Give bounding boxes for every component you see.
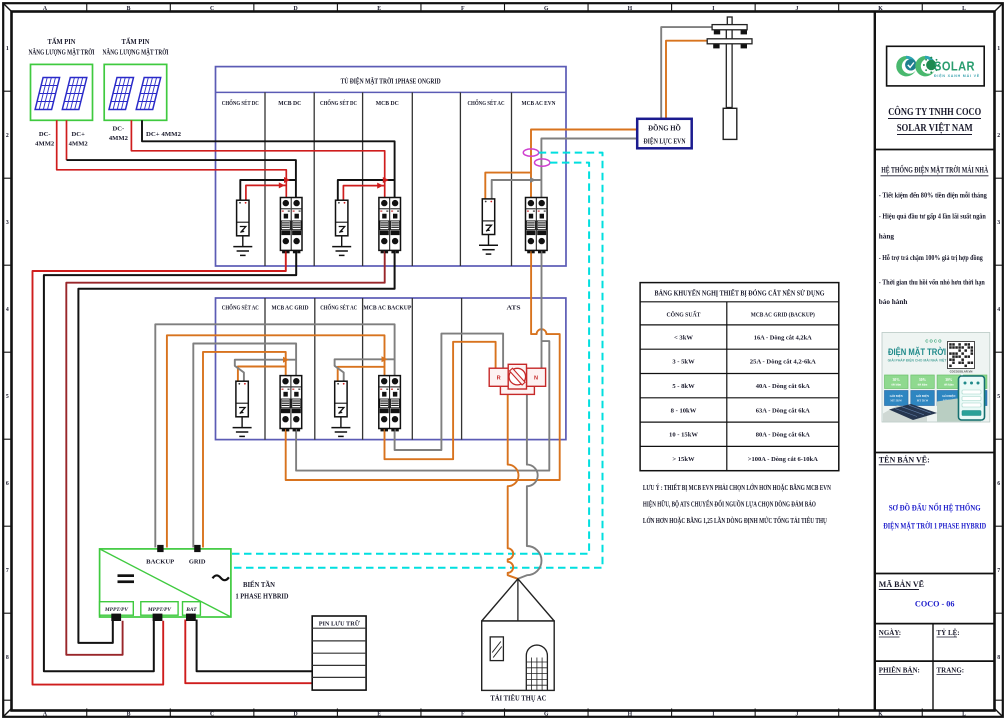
svg-text:DC-: DC- [39, 131, 51, 138]
SPD DC 1 branch wires [240, 180, 296, 200]
svg-text:10 - 15kW: 10 - 15kW [669, 432, 698, 439]
svg-text:25A - Dòng cắt 4,2-6kA: 25A - Dòng cắt 4,2-6kA [750, 359, 816, 366]
svg-text:COCOSOLAR.VN: COCOSOLAR.VN [950, 370, 973, 374]
red wire MCB DC1 -> MPPT2 [33, 251, 286, 685]
svg-text:CÔNG SUẤT: CÔNG SUẤT [667, 310, 702, 318]
svg-text:7: 7 [997, 568, 1000, 574]
ruler ticks and numbers (left/right) [3, 90, 11, 92]
svg-text:2: 2 [997, 133, 1000, 139]
junction arrow EVN [530, 177, 536, 183]
svg-text:LƯU Ý : THIẾT BỊ MCB EVN PHẢI: LƯU Ý : THIẾT BỊ MCB EVN PHẢI CHỌN LỚN H… [643, 484, 831, 492]
svg-text:> 15kW: > 15kW [672, 456, 695, 463]
house door (arched, grid) [526, 645, 547, 690]
svg-text:DC+: DC+ [72, 131, 86, 138]
svg-text:1: 1 [6, 46, 9, 52]
svg-text:CHỐNG SÉT AC: CHỐNG SÉT AC [222, 303, 259, 311]
main cabinet box row 1: TU DIEN MAT TROI 1PHASE ONGRID [216, 67, 567, 266]
svg-text:CHỐNG SÉT DC: CHỐNG SÉT DC [222, 99, 259, 107]
house roof [482, 579, 555, 621]
svg-text:D: D [294, 711, 298, 717]
corner diagonals [4, 4, 11, 11]
ATS lower box [500, 386, 534, 394]
recommendation table [640, 283, 839, 471]
ground SPD EVN [479, 235, 498, 255]
svg-text:PIN LƯU TRỮ: PIN LƯU TRỮ [319, 619, 361, 627]
svg-text:GÓI ĐIỆN: GÓI ĐIỆN [890, 395, 903, 398]
svg-text:bảo hành: bảo hành [879, 298, 908, 306]
svg-text:GIẢI PHÁP ĐIỆN CHO MÁI NHÀ VIỆ: GIẢI PHÁP ĐIỆN CHO MÁI NHÀ VIỆT [888, 358, 948, 363]
svg-text:SƠ ĐỒ ĐẤU NỐI HỆ THỐNG: SƠ ĐỒ ĐẤU NỐI HỆ THỐNG [889, 502, 982, 512]
svg-text:80A - Dòng cắt 6kA: 80A - Dòng cắt 6kA [756, 432, 810, 439]
MCB AC BACKUP [379, 376, 401, 432]
svg-text:1: 1 [997, 46, 1000, 52]
svg-text:E: E [377, 6, 381, 12]
ten ban ve section [875, 452, 995, 454]
svg-text:MT 5KW: MT 5KW [917, 400, 929, 403]
svg-text:TỶ LỆ:: TỶ LỆ: [937, 629, 960, 637]
battery PIN LUU TRU [312, 616, 366, 690]
svg-text:MPPT/PV: MPPT/PV [104, 607, 128, 613]
ma ban ve section [875, 573, 995, 575]
ruler ticks and letters (top/bottom) [86, 3, 88, 11]
ngay / ty le row [875, 623, 995, 625]
svg-text:N: N [534, 376, 538, 382]
svg-text:8: 8 [6, 655, 9, 661]
svg-text:G: G [544, 711, 549, 717]
orange GRID wire inverter->MCB AC GRID left pole [203, 352, 286, 548]
pole insulators [713, 30, 747, 48]
orange ATS output to house [508, 394, 519, 578]
svg-text:E: E [377, 711, 381, 717]
solar panel 2 (TAM PIN) [104, 64, 167, 120]
inverter terminal GRID [194, 545, 200, 552]
svg-text:ATS: ATS [507, 304, 521, 311]
svg-text:B: B [127, 6, 131, 12]
svg-text:NĂNG LƯỢNG MẶT TRỜI: NĂNG LƯỢNG MẶT TRỜI [103, 49, 169, 57]
svg-text:MÃ BẢN VẼ: MÃ BẢN VẼ [879, 579, 924, 589]
solar panel 1 (TAM PIN) [31, 64, 93, 120]
svg-text:TỦ ĐIỆN MẶT TRỜI 1PHASE ONGRID: TỦ ĐIỆN MẶT TRỜI 1PHASE ONGRID [341, 75, 441, 85]
inverter BIEN TAN box [100, 549, 231, 617]
svg-text:GÓI ĐIỆN: GÓI ĐIỆN [942, 395, 955, 398]
cyan dashed CT line B [231, 163, 589, 554]
SPD chong set DC 1 [237, 200, 249, 236]
wire panel1 DC+ (black) to MCB DC 1 right pole [67, 160, 296, 197]
svg-text:D: D [294, 6, 298, 12]
ground SPD DC2 [332, 236, 351, 256]
pole bottom cylinder [723, 108, 737, 139]
SPD chong set AC grid [236, 381, 248, 417]
gray BACKUP wire inverter->MCB AC BACKUP right pole [155, 324, 394, 547]
utility pole [707, 17, 752, 108]
svg-text:4MM2: 4MM2 [35, 140, 55, 147]
svg-text:ĐIỆN MẶT TRỜI: ĐIỆN MẶT TRỜI [888, 346, 946, 357]
svg-text:4: 4 [997, 307, 1000, 313]
svg-text:GRID: GRID [189, 559, 206, 566]
svg-text:hàng: hàng [879, 233, 895, 241]
svg-text:TRANG:: TRANG: [937, 666, 965, 674]
svg-text:HỆ THỐNG ĐIỆN MẶT TRỜI MÁI NHÀ: HỆ THỐNG ĐIỆN MẶT TRỜI MÁI NHÀ [881, 165, 988, 175]
DONG HO DIEN LUC EVN meter box [637, 119, 692, 149]
svg-text:PHIÊN BẢN:: PHIÊN BẢN: [879, 666, 920, 674]
coco solar logo [896, 56, 916, 77]
svg-text:G: G [544, 6, 549, 12]
inverter diagonal [100, 549, 231, 617]
SPD AC EVN branch wires [485, 173, 531, 199]
SPD AC backup branch wires (crossed) [338, 367, 385, 381]
svg-text:NĂNG LƯỢNG MẶT TRỜI: NĂNG LƯỢNG MẶT TRỜI [29, 49, 95, 57]
SPD chong set AC EVN [482, 199, 494, 235]
svg-text:7: 7 [6, 568, 9, 574]
roof center post [517, 579, 519, 621]
svg-text:CHỐNG SÉT AC: CHỐNG SÉT AC [320, 303, 357, 311]
svg-text:H: H [628, 711, 633, 717]
ATS R box [489, 368, 508, 386]
svg-text:B: B [127, 711, 131, 717]
svg-text:3 - 5kW: 3 - 5kW [672, 359, 695, 366]
svg-text:K: K [878, 711, 883, 717]
black wire MCB DC1 -> MPPT2 [44, 251, 296, 672]
svg-text:ĐIỆN XANH MÁI VỀ: ĐIỆN XANH MÁI VỀ [934, 73, 980, 78]
svg-text:8 - 10kW: 8 - 10kW [671, 407, 697, 414]
svg-text:- Hiệu quả đầu tư gấp 4 lần lã: - Hiệu quả đầu tư gấp 4 lần lãi suất ngâ… [879, 212, 986, 221]
SPD DC 2 branch wires [338, 180, 395, 200]
svg-text:BACKUP: BACKUP [146, 559, 174, 566]
AC symbol ~ [213, 575, 229, 580]
MCB AC GRID [280, 376, 302, 432]
svg-text:HIỆN HỮU, BỘ ATS CHUYỂN ĐỔI NG: HIỆN HỮU, BỘ ATS CHUYỂN ĐỔI NGUỒN LỰA CH… [643, 500, 816, 508]
svg-text:5: 5 [6, 394, 9, 400]
DC symbol = [118, 574, 135, 577]
orange U-turn MCB backup -> ATS R [385, 342, 496, 459]
ATS center box [508, 364, 526, 389]
svg-text:COCO: COCO [925, 339, 942, 344]
svg-text:C: C [210, 6, 214, 12]
svg-text:3: 3 [6, 220, 9, 226]
svg-text:5: 5 [997, 394, 1000, 400]
CT coil magenta ellipse 2 [535, 159, 550, 166]
svg-text:ĐIỆN LỰC EVN: ĐIỆN LỰC EVN [644, 138, 686, 146]
svg-text:K: K [878, 6, 883, 12]
svg-text:F: F [461, 6, 465, 12]
svg-text:DC-: DC- [113, 126, 125, 133]
MCB DC 2 [379, 198, 401, 254]
orange link MCB EVN -> ATS column -> MCB AC GRID left pole [286, 249, 560, 481]
logo box [887, 46, 985, 86]
svg-text:TẤM PIN: TẤM PIN [122, 38, 150, 46]
svg-text:8: 8 [997, 655, 1000, 661]
svg-text:3: 3 [997, 220, 1000, 226]
MPPT/PV box 2 [141, 602, 178, 616]
gray branch jog -> down -> MCB AC GRID right pole [296, 341, 549, 471]
svg-text:MCB AC GRID (BACKUP): MCB AC GRID (BACKUP) [751, 311, 815, 318]
wire meter to MCB AC EVN left pole (orange) [531, 130, 637, 198]
SPD chong set AC backup [335, 381, 347, 417]
svg-text:MT 5KW: MT 5KW [890, 400, 902, 403]
svg-text:MCB AC EVN: MCB AC EVN [522, 100, 556, 107]
svg-text:4: 4 [6, 307, 9, 313]
svg-text:R: R [497, 376, 501, 382]
svg-text:MPPT/PV: MPPT/PV [147, 607, 171, 613]
svg-text:CHỐNG SÉT AC: CHỐNG SÉT AC [468, 99, 505, 107]
svg-text:30%: 30% [945, 378, 953, 382]
svg-text:NGÀY:: NGÀY: [879, 629, 901, 637]
svg-text:CÔNG TY TNHH COCO: CÔNG TY TNHH COCO [888, 105, 981, 118]
orange BACKUP wire inverter->MCB AC BACKUP left pole [167, 335, 385, 547]
svg-text:6: 6 [997, 481, 1000, 487]
cabinet box row 2 [216, 298, 566, 440]
BAT box [183, 602, 201, 616]
svg-text:BẢNG KHUYẾN NGHỊ THIẾT BỊ ĐÓNG: BẢNG KHUYẾN NGHỊ THIẾT BỊ ĐÓNG CẮT NÊN S… [655, 289, 826, 297]
svg-text:MCB AC GRID: MCB AC GRID [272, 304, 309, 311]
inverter terminal BACKUP [157, 545, 163, 552]
svg-text:30%: 30% [919, 378, 927, 382]
svg-text:tiết kiệm: tiết kiệm [918, 384, 929, 387]
cyan dashed CT line A [231, 153, 603, 568]
utility pole wires (gray top, orange bottom) [661, 27, 712, 119]
gray link MCB EVN -> ATS N box [541, 249, 543, 369]
CT coil magenta ellipse 1 [523, 149, 538, 156]
svg-text:SOLAR: SOLAR [934, 59, 975, 74]
svg-text:4MM2: 4MM2 [109, 135, 129, 142]
svg-text:- Hỗ trợ trả chậm 100% giá trị: - Hỗ trợ trả chậm 100% giá trị hợp đồng [879, 253, 983, 262]
ATS rotary knob [509, 368, 526, 385]
title block left edge [874, 12, 876, 711]
svg-text:L: L [962, 6, 966, 12]
MPPT/PV box 1 [100, 602, 134, 616]
svg-text:GÓI ĐIỆN: GÓI ĐIỆN [916, 395, 929, 398]
ground SPD AC backup [331, 417, 350, 437]
svg-text:40A - Dòng cắt 6kA: 40A - Dòng cắt 6kA [756, 383, 810, 390]
svg-text:BIẾN TẦN: BIẾN TẦN [243, 581, 275, 589]
ground SPD AC grid [233, 417, 252, 437]
svg-text:ĐIỆN MẶT TRỜI 1 PHASE HYBRID: ĐIỆN MẶT TRỜI 1 PHASE HYBRID [883, 520, 986, 530]
MCB DC 1 [280, 198, 302, 254]
svg-text:6: 6 [6, 481, 9, 487]
svg-text:2: 2 [6, 133, 9, 139]
svg-text:BAT: BAT [185, 607, 197, 613]
red wire MCB DC2 -> MPPT1 [66, 251, 384, 655]
section divider [875, 149, 995, 151]
svg-text:MCB DC: MCB DC [376, 100, 399, 107]
svg-text:5 - 8kW: 5 - 8kW [672, 383, 695, 390]
phien ban / trang row [875, 660, 995, 662]
svg-text:H: H [628, 6, 633, 12]
wire panel1 DC- (red) to MCB DC 1 left pole [57, 120, 287, 197]
svg-text:DC+ 4MM2: DC+ 4MM2 [146, 131, 182, 138]
wire panel2 DC+ (black) to MCB DC 2 right pole [142, 120, 395, 197]
svg-text:TẢI TIÊU THỤ AC: TẢI TIÊU THỤ AC [490, 695, 546, 703]
svg-text:F: F [461, 711, 465, 717]
svg-text:- Tiết kiệm đến 80% tiền điện: - Tiết kiệm đến 80% tiền điện mỗi tháng [879, 191, 987, 200]
svg-text:1 PHASE HYBRID: 1 PHASE HYBRID [236, 593, 289, 601]
svg-text:L: L [962, 711, 966, 717]
wire meter to MCB AC EVN right pole (gray) [541, 139, 637, 198]
svg-text:MCB DC: MCB DC [278, 100, 301, 107]
svg-text:ĐỒNG HỒ: ĐỒNG HỒ [648, 125, 681, 133]
junction arrows group 1 [284, 177, 290, 183]
svg-text:LỚN HƠN HOẶC BẰNG 1,25 LẦN DÒN: LỚN HƠN HOẶC BẰNG 1,25 LẦN DÒNG ĐỊNH MỨC… [643, 517, 827, 525]
row 1 column dividers [264, 92, 266, 266]
svg-text:C: C [210, 711, 214, 717]
red battery wire [185, 620, 312, 684]
black battery wire [197, 620, 313, 672]
black wire MCB DC2 -> MPPT1 [78, 251, 394, 643]
svg-text:30%: 30% [893, 378, 901, 382]
SPD AC grid branch wires (crossed) [238, 367, 286, 382]
svg-text:SOLAR VIỆT NAM: SOLAR VIỆT NAM [897, 121, 973, 134]
gray U-turn MCB backup -> ATS R [395, 334, 504, 450]
ground SPD DC1 [233, 236, 252, 256]
MCB AC EVN [526, 198, 548, 254]
svg-text:TẤM PIN: TẤM PIN [48, 38, 76, 46]
svg-text:TÊN BẢN VẼ:: TÊN BẢN VẼ: [879, 454, 930, 464]
junction arrows group 2 [383, 177, 389, 183]
svg-text:tiết kiệm: tiết kiệm [891, 384, 902, 387]
svg-text:< 3kW: < 3kW [674, 334, 693, 341]
svg-text:16A - Dòng cắt 4,2kA: 16A - Dòng cắt 4,2kA [754, 334, 812, 341]
svg-text:J: J [795, 711, 798, 717]
svg-text:>100A - Dòng cắt 6-10kA: >100A - Dòng cắt 6-10kA [748, 456, 818, 463]
house body [482, 621, 555, 690]
house window [490, 637, 503, 661]
gray GRID wire inverter->MCB AC GRID right pole [193, 344, 296, 548]
inverter bottom terminals [111, 614, 121, 621]
SPD chong set DC 2 [336, 200, 348, 236]
svg-text:J: J [795, 6, 798, 12]
svg-text:COCO - 06: COCO - 06 [915, 600, 955, 609]
advert image mock [882, 333, 990, 423]
gray ATS output to house [518, 394, 542, 578]
row 2 column dividers [264, 298, 266, 440]
svg-text:MCB AC BACKUP: MCB AC BACKUP [363, 304, 411, 311]
svg-text:tiết kiệm: tiết kiệm [944, 384, 955, 387]
svg-text:CHỐNG SÉT DC: CHỐNG SÉT DC [320, 99, 357, 107]
svg-text:- Thời gian thu hồi vốn nhỏ hơ: - Thời gian thu hồi vốn nhỏ hơn thời hạn [879, 278, 985, 287]
svg-text:4MM2: 4MM2 [69, 140, 89, 147]
wire panel1 DC+ red stub [66, 120, 68, 160]
ATS N box [527, 368, 546, 386]
wire panel2 DC- (red) to MCB DC 2 left pole [131, 120, 384, 197]
svg-text:63A - Dòng cắt 6kA: 63A - Dòng cắt 6kA [756, 407, 810, 414]
